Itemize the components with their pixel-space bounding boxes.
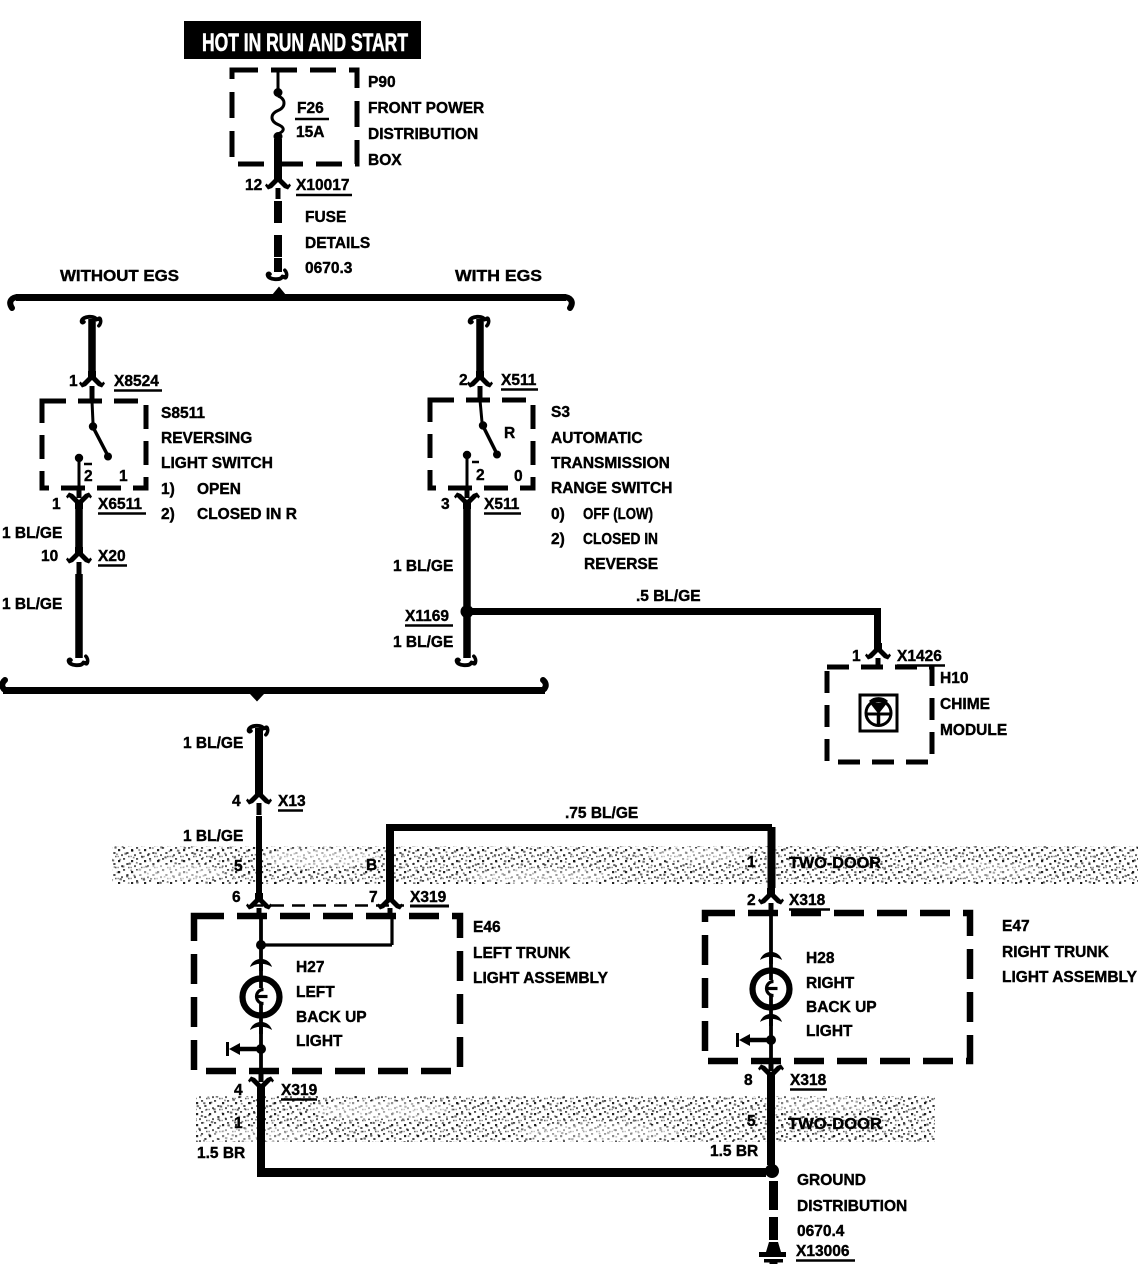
svg-text:6: 6 xyxy=(232,889,241,906)
svg-text:X20: X20 xyxy=(98,548,126,565)
svg-text:LEFT: LEFT xyxy=(296,984,335,1001)
svg-text:.75 BL/GE: .75 BL/GE xyxy=(565,805,638,822)
svg-text:2: 2 xyxy=(476,467,485,484)
svg-text:1): 1) xyxy=(161,481,175,498)
svg-text:1 BL/GE: 1 BL/GE xyxy=(2,525,62,542)
svg-text:X319: X319 xyxy=(281,1082,318,1099)
svg-text:FRONT POWER: FRONT POWER xyxy=(368,100,484,117)
svg-text:3: 3 xyxy=(441,496,450,513)
svg-text:2: 2 xyxy=(459,372,468,389)
svg-text:7: 7 xyxy=(369,889,378,906)
svg-text:LIGHT ASSEMBLY: LIGHT ASSEMBLY xyxy=(473,970,609,987)
svg-text:LIGHT: LIGHT xyxy=(806,1023,853,1040)
svg-text:0670.3: 0670.3 xyxy=(305,260,353,277)
svg-text:15A: 15A xyxy=(296,124,324,141)
svg-text:1: 1 xyxy=(119,468,128,485)
svg-text:0670.4: 0670.4 xyxy=(797,1223,845,1240)
svg-text:H10: H10 xyxy=(940,670,968,687)
svg-text:1 BL/GE: 1 BL/GE xyxy=(183,735,243,752)
svg-text:1: 1 xyxy=(52,496,61,513)
svg-text:LIGHT: LIGHT xyxy=(296,1033,343,1050)
svg-text:10: 10 xyxy=(41,548,58,565)
svg-text:.5 BL/GE: .5 BL/GE xyxy=(636,588,701,605)
svg-text:X319: X319 xyxy=(410,889,447,906)
svg-text:S3: S3 xyxy=(551,404,570,421)
svg-text:P90: P90 xyxy=(368,74,396,91)
svg-text:H28: H28 xyxy=(806,950,835,967)
svg-text:1 BL/GE: 1 BL/GE xyxy=(393,634,453,651)
svg-text:AUTOMATIC: AUTOMATIC xyxy=(551,430,643,447)
svg-text:X318: X318 xyxy=(790,1072,827,1089)
svg-text:WITHOUT EGS: WITHOUT EGS xyxy=(60,268,179,285)
svg-text:4: 4 xyxy=(232,793,241,810)
svg-text:S8511: S8511 xyxy=(161,405,205,422)
svg-text:1: 1 xyxy=(234,1115,243,1132)
svg-text:RIGHT TRUNK: RIGHT TRUNK xyxy=(1002,944,1110,961)
svg-text:TWO-DOOR: TWO-DOOR xyxy=(789,855,881,872)
svg-text:CLOSED IN R: CLOSED IN R xyxy=(197,506,297,523)
svg-text:1: 1 xyxy=(852,648,861,665)
svg-text:4: 4 xyxy=(234,1082,243,1099)
svg-text:WITH EGS: WITH EGS xyxy=(455,268,542,285)
svg-text:CHIME: CHIME xyxy=(940,696,990,713)
svg-text:F26: F26 xyxy=(297,100,324,117)
svg-text:H27: H27 xyxy=(296,959,324,976)
svg-text:2: 2 xyxy=(84,468,93,485)
svg-text:X318: X318 xyxy=(789,892,826,909)
svg-text:B: B xyxy=(366,857,377,874)
svg-text:0): 0) xyxy=(551,506,565,523)
svg-text:X511: X511 xyxy=(501,372,537,389)
svg-text:BACK UP: BACK UP xyxy=(806,999,877,1016)
svg-text:1.5 BR: 1.5 BR xyxy=(197,1145,245,1162)
svg-text:REVERSING: REVERSING xyxy=(161,430,252,447)
svg-text:X6511: X6511 xyxy=(98,496,142,513)
svg-text:1: 1 xyxy=(747,854,756,871)
svg-text:HOT IN RUN AND START: HOT IN RUN AND START xyxy=(202,29,408,57)
svg-text:E46: E46 xyxy=(473,919,501,936)
svg-text:OFF (LOW): OFF (LOW) xyxy=(583,506,653,523)
svg-text:GROUND: GROUND xyxy=(797,1172,866,1189)
svg-text:LEFT TRUNK: LEFT TRUNK xyxy=(473,945,571,962)
svg-text:BACK UP: BACK UP xyxy=(296,1009,367,1026)
svg-text:LIGHT ASSEMBLY: LIGHT ASSEMBLY xyxy=(1002,969,1138,986)
svg-text:X13006: X13006 xyxy=(796,1243,850,1260)
svg-text:MODULE: MODULE xyxy=(940,722,1007,739)
svg-text:2): 2) xyxy=(161,506,175,523)
svg-text:TWO-DOOR: TWO-DOOR xyxy=(788,1116,882,1133)
svg-text:CLOSED IN: CLOSED IN xyxy=(583,531,658,548)
svg-text:1 BL/GE: 1 BL/GE xyxy=(2,596,62,613)
svg-text:RANGE SWITCH: RANGE SWITCH xyxy=(551,480,672,497)
svg-text:8: 8 xyxy=(744,1072,753,1089)
svg-text:FUSE: FUSE xyxy=(305,209,346,226)
svg-text:DISTRIBUTION: DISTRIBUTION xyxy=(368,126,478,143)
svg-text:X10017: X10017 xyxy=(296,177,349,194)
svg-text:1 BL/GE: 1 BL/GE xyxy=(393,558,453,575)
svg-text:1.5 BR: 1.5 BR xyxy=(710,1143,758,1160)
svg-text:X8524: X8524 xyxy=(114,373,159,390)
svg-text:X13: X13 xyxy=(278,793,306,810)
svg-text:X1426: X1426 xyxy=(897,648,942,665)
svg-text:1 BL/GE: 1 BL/GE xyxy=(183,828,243,845)
svg-text:2): 2) xyxy=(551,531,565,548)
svg-text:RIGHT: RIGHT xyxy=(806,975,855,992)
svg-text:0: 0 xyxy=(514,468,523,485)
svg-text:5: 5 xyxy=(234,858,243,875)
svg-text:12: 12 xyxy=(245,177,262,194)
svg-text:X1169: X1169 xyxy=(405,608,449,625)
svg-text:1: 1 xyxy=(69,373,78,390)
svg-text:2: 2 xyxy=(747,892,756,909)
svg-text:REVERSE: REVERSE xyxy=(584,556,658,573)
svg-text:LIGHT SWITCH: LIGHT SWITCH xyxy=(161,455,273,472)
svg-text:5: 5 xyxy=(747,1113,756,1130)
svg-text:R: R xyxy=(504,425,515,442)
svg-text:DETAILS: DETAILS xyxy=(305,235,370,252)
svg-text:TRANSMISSION: TRANSMISSION xyxy=(551,455,670,472)
svg-text:DISTRIBUTION: DISTRIBUTION xyxy=(797,1198,907,1215)
svg-text:BOX: BOX xyxy=(368,152,402,169)
svg-text:E47: E47 xyxy=(1002,918,1030,935)
svg-text:X511: X511 xyxy=(484,496,520,513)
svg-text:OPEN: OPEN xyxy=(197,481,241,498)
